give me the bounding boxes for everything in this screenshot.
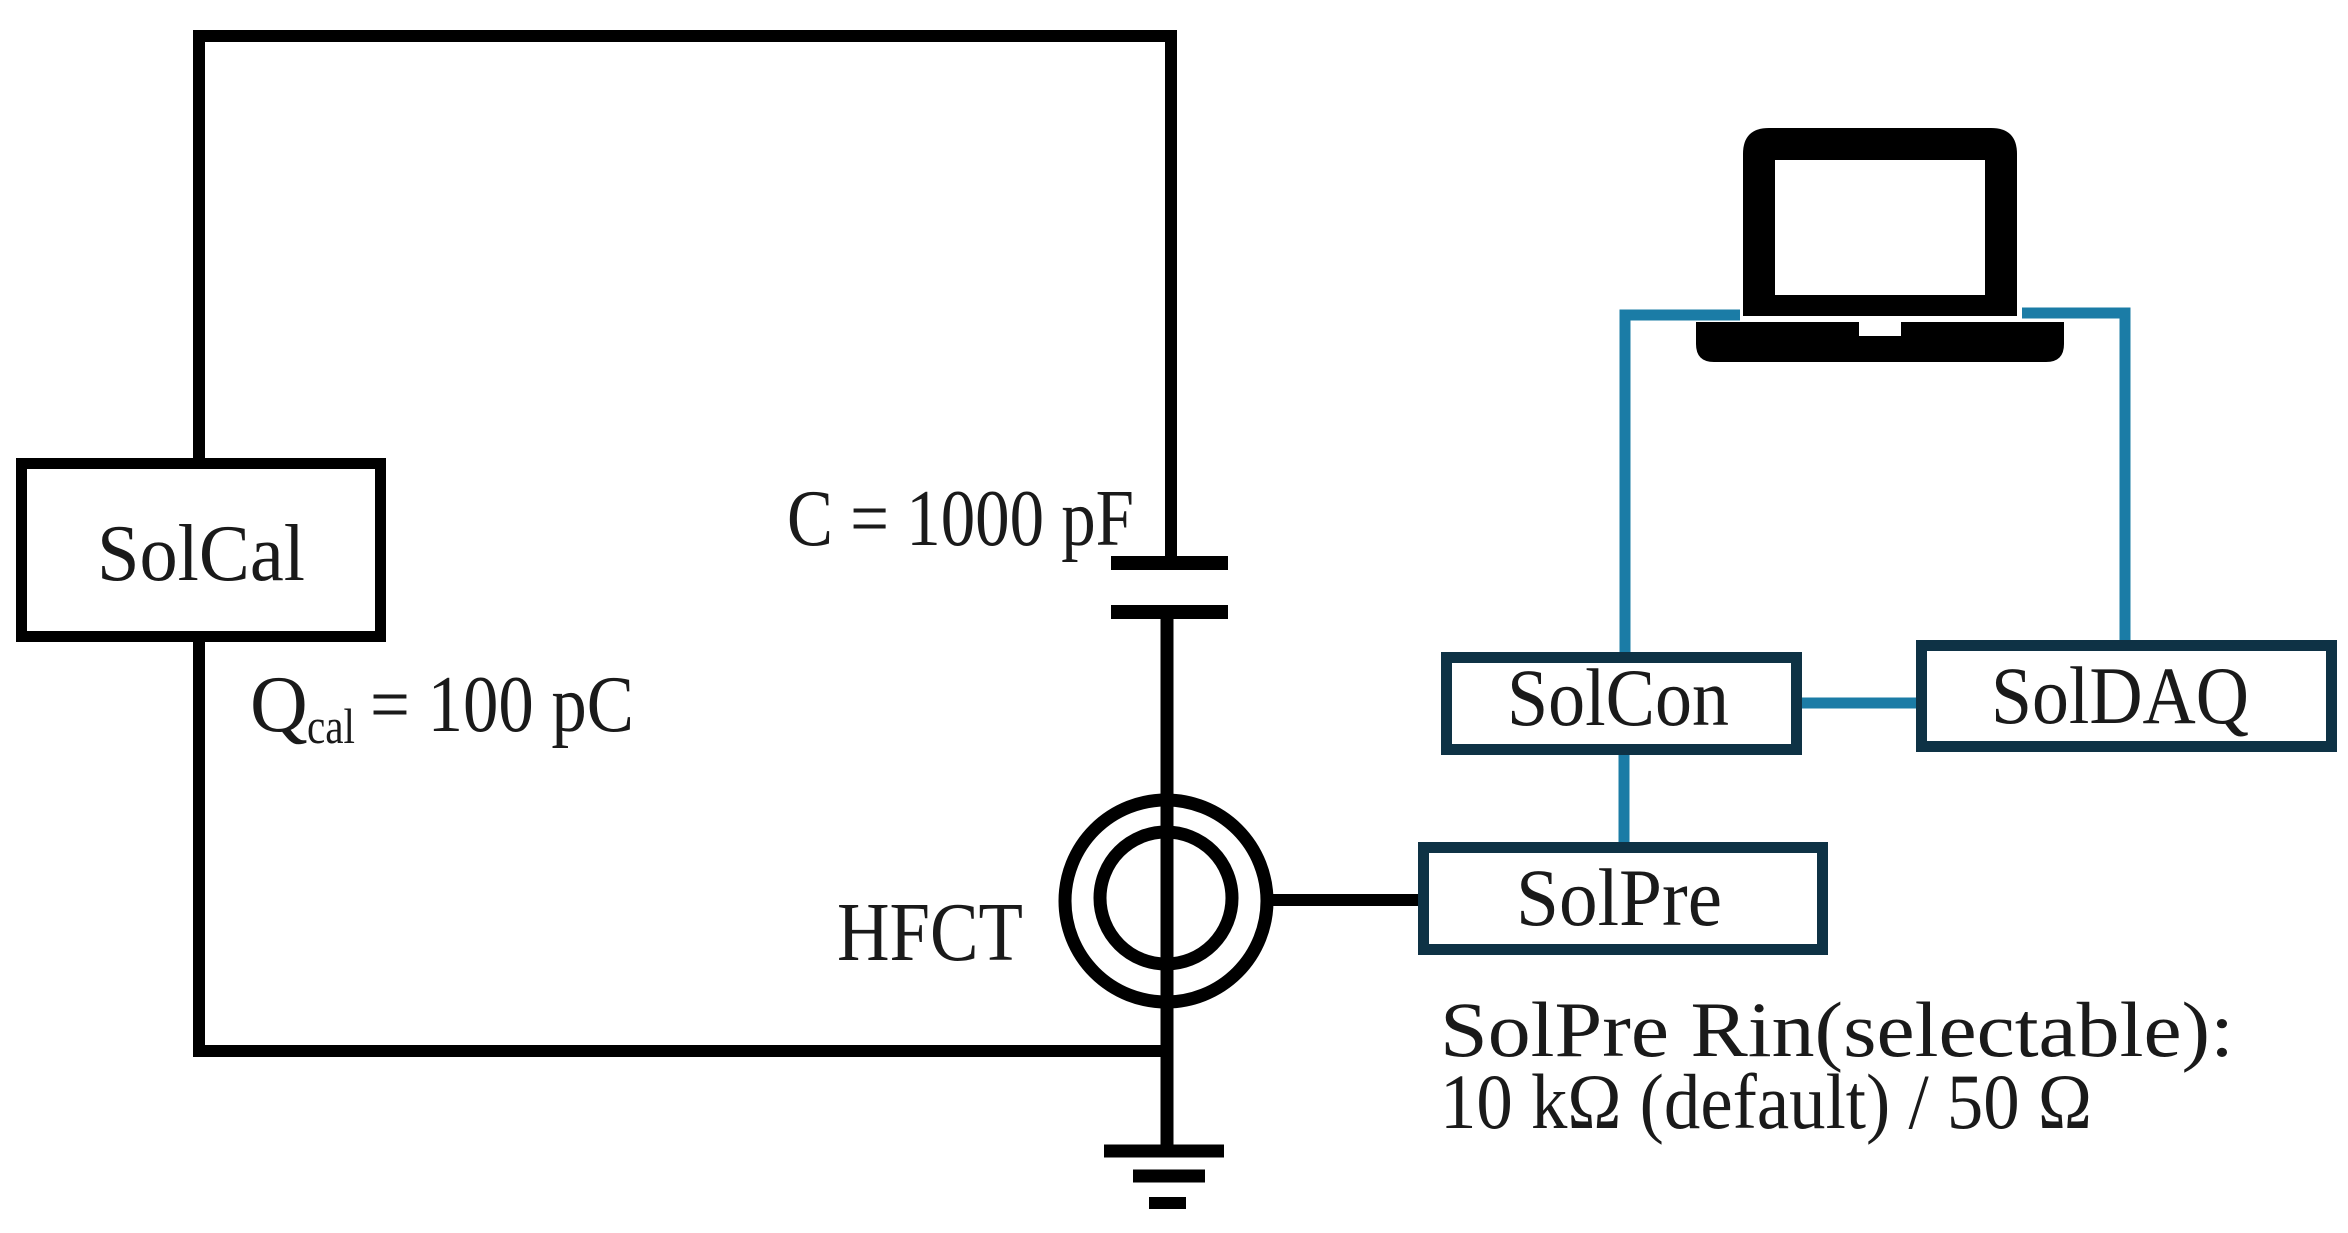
svg-text:Q: Q (250, 661, 308, 749)
svg-text:C = 1000 pF: C = 1000 pF (787, 475, 1134, 563)
svg-text:SolPre: SolPre (1516, 852, 1722, 943)
svg-text:10 kΩ (default) / 50 Ω: 10 kΩ (default) / 50 Ω (1440, 1058, 2092, 1145)
svg-text:= 100 pC: = 100 pC (370, 661, 634, 749)
svg-text:cal: cal (307, 698, 355, 754)
svg-text:SolDAQ: SolDAQ (1991, 650, 2249, 741)
svg-text:SolCon: SolCon (1507, 652, 1729, 743)
svg-text:HFCT: HFCT (837, 886, 1023, 979)
svg-text:SolCal: SolCal (97, 510, 305, 598)
